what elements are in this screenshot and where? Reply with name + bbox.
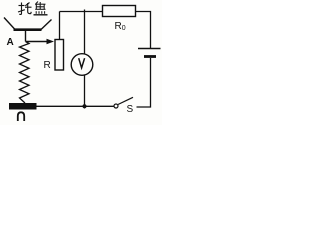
resistor R0 body bbox=[103, 6, 136, 17]
label 托盘 (tray) char 盘 bbox=[34, 2, 48, 15]
rheostat R body bbox=[55, 40, 64, 71]
wire voltmeter branch bottom bbox=[84, 76, 86, 109]
label 托盘 (tray) char 托 bbox=[18, 3, 32, 15]
svg-text:R: R bbox=[44, 60, 51, 71]
switch S lever bbox=[118, 97, 133, 104]
stem from tray to point A bbox=[25, 31, 27, 42]
junction node dot bbox=[83, 104, 87, 108]
wire voltmeter branch top bbox=[84, 10, 86, 54]
wire bottom rail bbox=[37, 105, 115, 107]
wire top rail bbox=[60, 11, 103, 13]
base label (arch glyph) bbox=[18, 112, 24, 121]
tray symbol bbox=[4, 18, 52, 30]
voltmeter V bbox=[71, 54, 93, 76]
fixed base block bbox=[9, 103, 37, 110]
switch S hinge circle bbox=[114, 104, 118, 108]
wire from R top to top rail bbox=[59, 12, 61, 40]
battery negative plate bbox=[144, 55, 156, 58]
wire from battery down to bottom-right corner bbox=[137, 58, 151, 107]
spring bbox=[20, 42, 30, 104]
wire from R0 to top-right corner bbox=[136, 12, 151, 49]
svg-text:A: A bbox=[7, 37, 14, 48]
wiper arrow from A to rheostat R bbox=[26, 39, 55, 44]
battery positive plate bbox=[138, 48, 161, 50]
svg-text:S: S bbox=[127, 104, 134, 115]
